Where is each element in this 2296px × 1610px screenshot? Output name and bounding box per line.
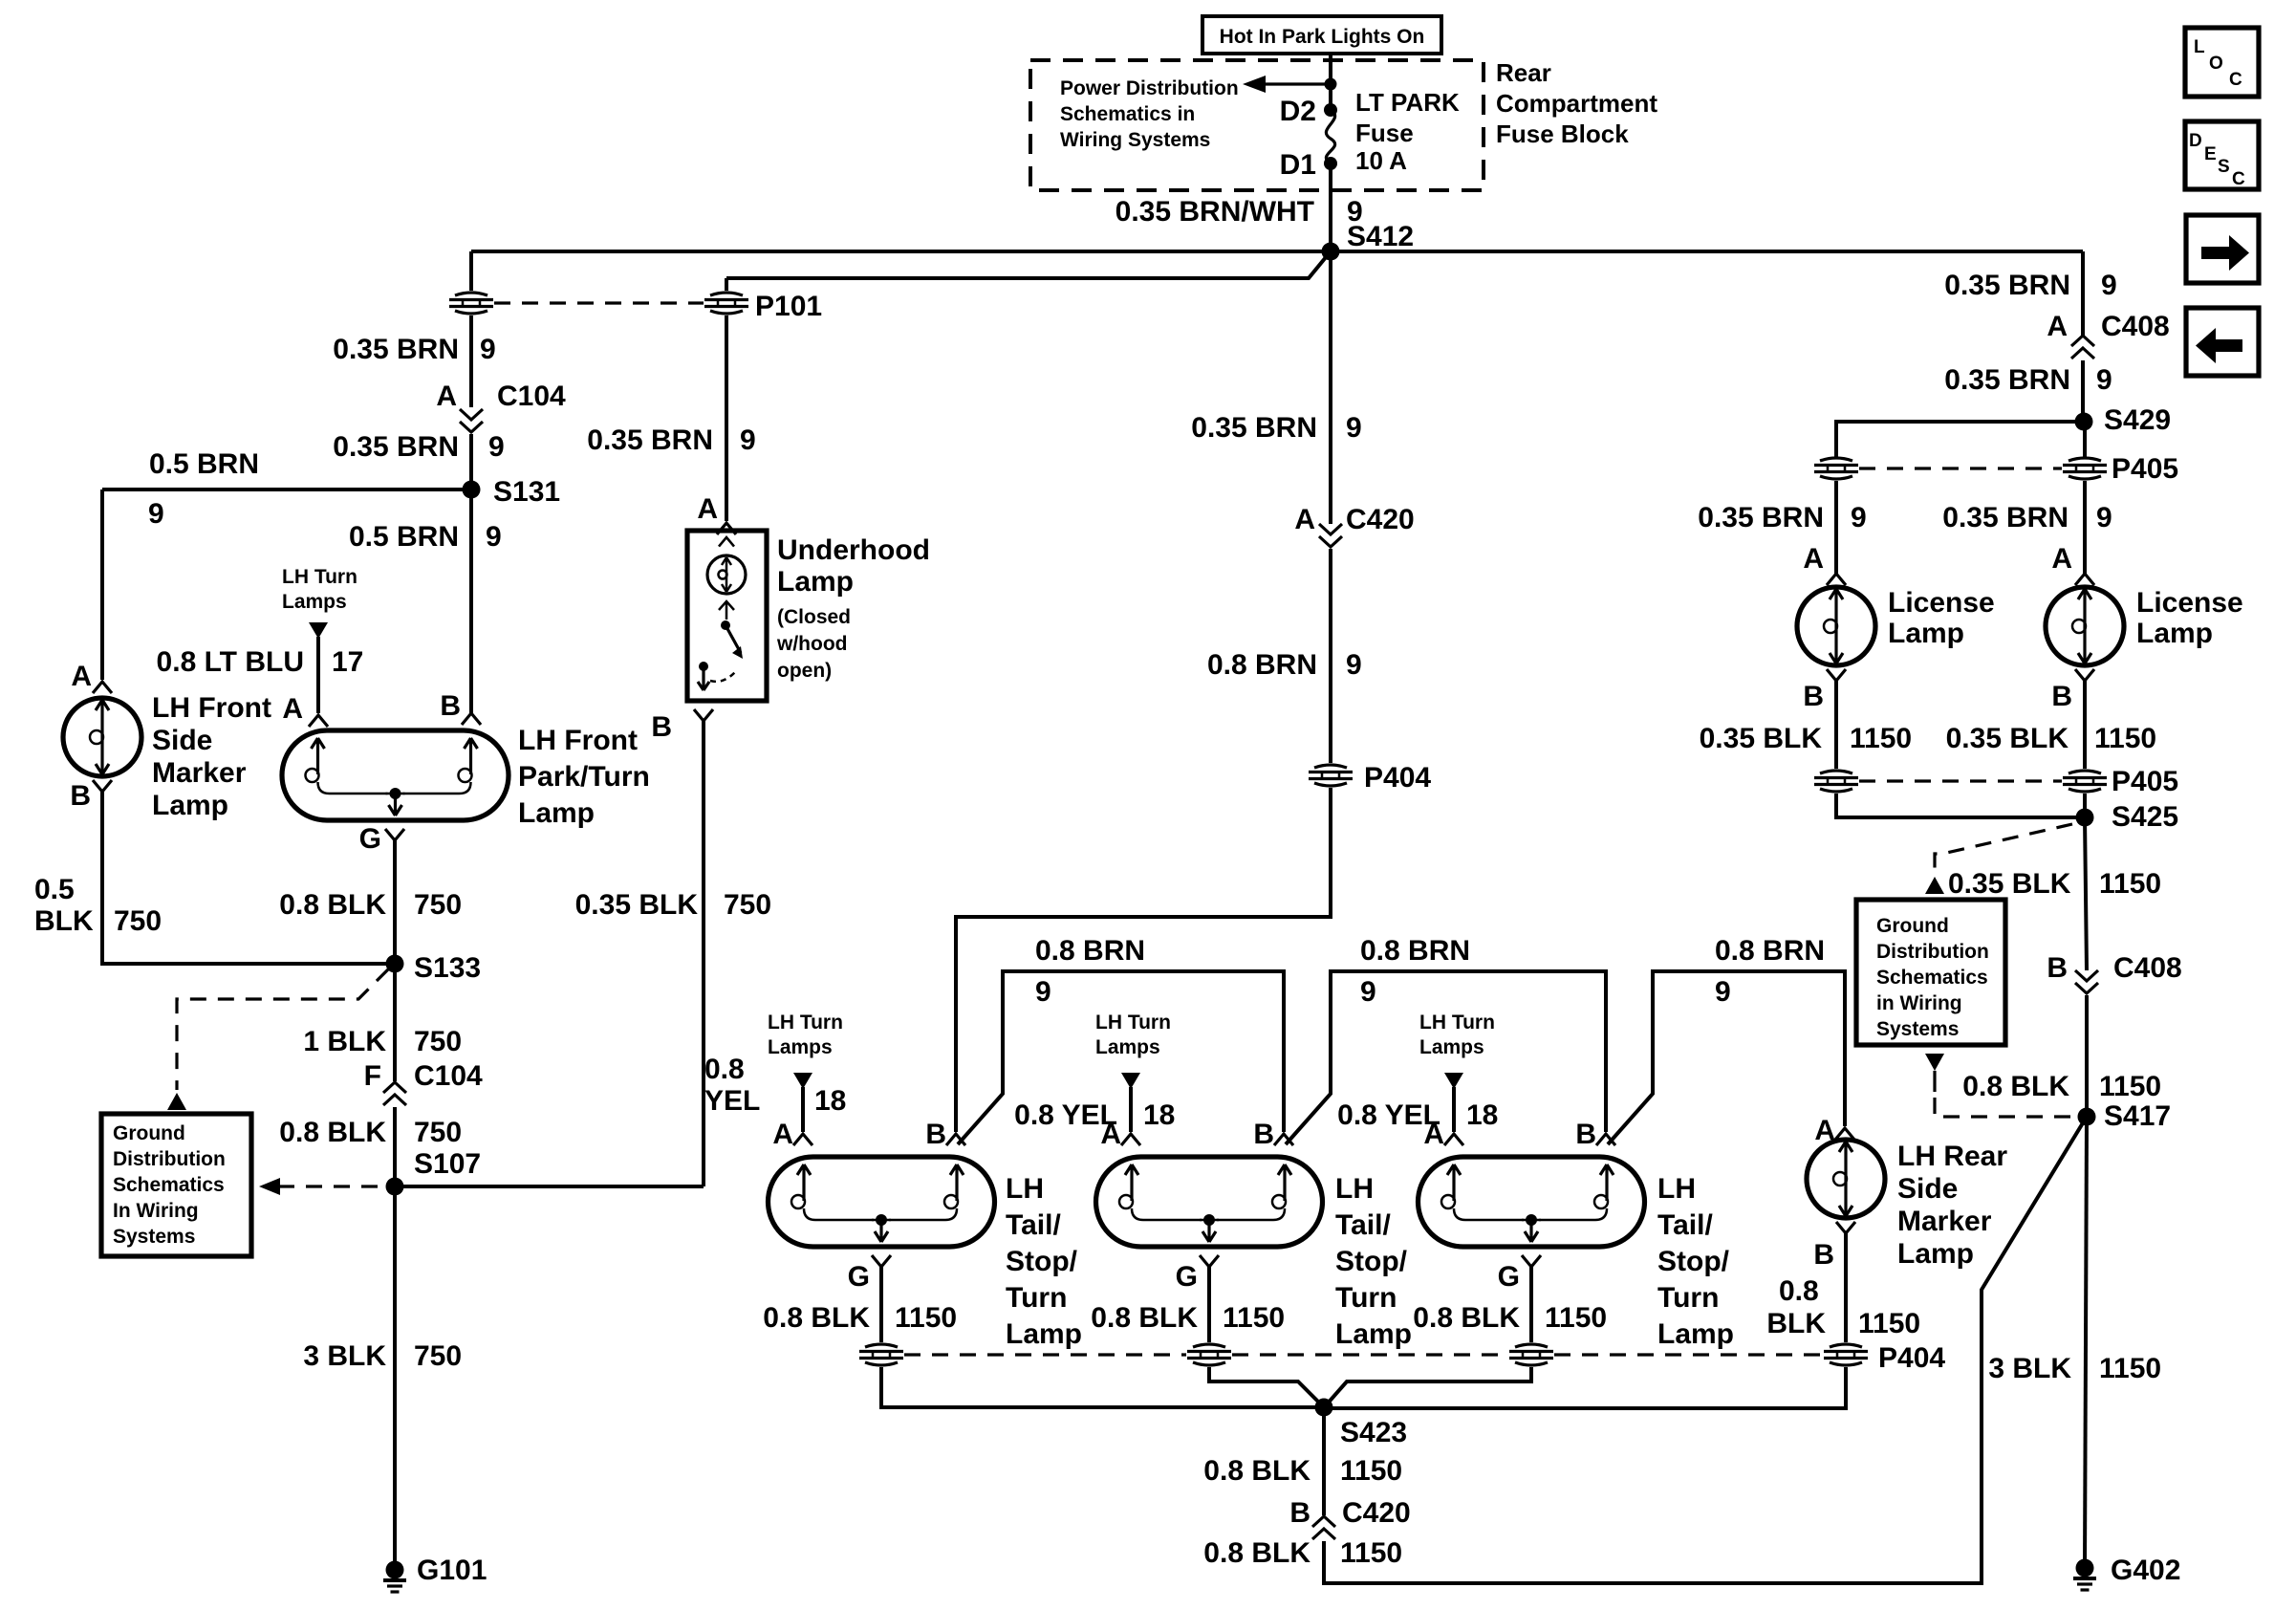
svg-text:9: 9 <box>480 334 496 365</box>
svg-text:LH Turn: LH Turn <box>1419 1012 1495 1033</box>
terminal A license left <box>1803 543 1846 585</box>
svg-text:YEL: YEL <box>704 1085 760 1117</box>
svg-text:F: F <box>364 1060 381 1092</box>
wire rear marker B to S423 <box>1324 1367 1846 1408</box>
svg-text:S107: S107 <box>414 1148 481 1180</box>
svg-text:LH: LH <box>1006 1173 1044 1205</box>
svg-text:9: 9 <box>1035 976 1051 1008</box>
terminal B <box>1813 1222 1855 1271</box>
label LH Tail/Stop/Turn Lamp <box>1006 1173 1082 1350</box>
wire label 0.35 BRN 9 <box>1191 412 1361 444</box>
svg-text:Lamp: Lamp <box>1888 618 1964 649</box>
wire label 0.8 BRN 9 <box>1207 649 1362 681</box>
stem below arrow <box>1933 1071 1936 1092</box>
terminal A <box>71 661 112 693</box>
wire license B right to P405 <box>2083 681 2087 769</box>
wire from title box to D2 <box>1329 54 1332 110</box>
wire license B to P405 (left) <box>1834 681 1838 769</box>
terminal G <box>848 1255 891 1293</box>
arrow to ground distribution box <box>167 1093 186 1110</box>
wire S131 to side marker branch <box>102 488 471 491</box>
svg-text:B: B <box>1289 1497 1310 1529</box>
wire label 0.35 BLK 1150 <box>1946 723 2156 754</box>
lamp LH Tail/Stop/Turn 2 <box>1096 1157 1323 1247</box>
svg-text:LH Turn: LH Turn <box>768 1012 843 1033</box>
node S107 <box>386 1148 482 1196</box>
grommet (left of P101) <box>449 293 493 314</box>
svg-text:C104: C104 <box>414 1060 483 1092</box>
label Rear Compartment Fuse Block <box>1496 58 1657 148</box>
svg-text:P404: P404 <box>1878 1342 1945 1374</box>
svg-text:0.8 BRN: 0.8 BRN <box>1360 935 1470 967</box>
label License Lamp <box>1888 587 1995 649</box>
wire label 0.8 BLK 1150 <box>1766 1275 1920 1339</box>
note LH Turn Lamps <box>768 1012 843 1058</box>
svg-text:0.35 BRN/WHT: 0.35 BRN/WHT <box>1116 196 1314 228</box>
wire label 0.35 BRN 9 <box>587 424 755 456</box>
svg-text:9: 9 <box>740 424 756 456</box>
wire label 0.8 BLK 750 <box>279 889 462 921</box>
wire P404 to tail lamp 1 B <box>956 788 1331 1132</box>
wire S429 to P405 right <box>2083 422 2087 457</box>
dashed link P404 row <box>904 1353 1823 1356</box>
arrow to power distribution <box>1243 76 1337 93</box>
wire D1 to S412 <box>1329 163 1332 251</box>
svg-text:Turn: Turn <box>1335 1282 1397 1314</box>
svg-text:0.35 BRN: 0.35 BRN <box>1944 270 2070 301</box>
terminal G <box>1498 1255 1541 1293</box>
svg-text:1150: 1150 <box>1340 1455 1402 1487</box>
svg-text:Lamp: Lamp <box>2136 618 2213 649</box>
svg-text:Lamp: Lamp <box>1897 1238 1974 1270</box>
svg-text:S425: S425 <box>2112 801 2178 833</box>
svg-text:Distribution: Distribution <box>1876 941 1989 963</box>
svg-text:Systems: Systems <box>113 1226 195 1248</box>
wire label 0.35 BRN 9 <box>333 431 504 463</box>
svg-text:Lamp: Lamp <box>1335 1318 1412 1350</box>
svg-text:P404: P404 <box>1364 762 1431 794</box>
node S133 <box>386 952 482 984</box>
svg-text:0.35 BRN: 0.35 BRN <box>1191 412 1317 444</box>
svg-text:S429: S429 <box>2104 404 2171 436</box>
label License Lamp <box>2136 587 2243 649</box>
lamp LH Front Park/Turn <box>282 730 509 820</box>
svg-text:9: 9 <box>2101 270 2117 301</box>
node S429 <box>2075 404 2172 436</box>
svg-text:B: B <box>1803 681 1824 712</box>
svg-text:Park/Turn: Park/Turn <box>518 761 650 793</box>
note LH Turn Lamps <box>1095 1012 1171 1058</box>
underhood lamp internals: bulb <box>707 537 746 594</box>
Rear Compartment Fuse Block dashed box <box>1030 60 1484 190</box>
svg-text:Tail/: Tail/ <box>1335 1209 1391 1241</box>
svg-text:0.8 BLK: 0.8 BLK <box>1413 1302 1520 1334</box>
wire marker lamp B to S133 <box>102 792 395 964</box>
node S412 <box>1322 221 1415 261</box>
svg-text:0.35 BLK: 0.35 BLK <box>1700 723 1823 754</box>
svg-text:A: A <box>1423 1119 1444 1150</box>
svg-text:P101: P101 <box>755 291 822 322</box>
svg-text:Underhood: Underhood <box>777 534 930 566</box>
connector P405 top left <box>1814 458 1858 479</box>
connector C104 pin A <box>436 381 566 432</box>
label LH Tail/Stop/Turn Lamp <box>1657 1173 1734 1350</box>
svg-text:9: 9 <box>1346 412 1362 444</box>
wire rear marker B to P404 <box>1844 1233 1848 1342</box>
svg-text:C408: C408 <box>2101 311 2170 342</box>
box Ground Distribution Schematics In Wiring Systems <box>101 1114 251 1256</box>
svg-text:G101: G101 <box>417 1555 487 1586</box>
svg-text:Distribution: Distribution <box>113 1148 226 1170</box>
wire S425 to C408 B <box>2085 817 2087 970</box>
connector C420 pin A <box>1294 504 1414 547</box>
wire G3 to S423 <box>1326 1367 1531 1405</box>
arrow to ground distribution (up) <box>1925 877 1944 894</box>
svg-text:B: B <box>1813 1239 1834 1271</box>
label LH Front Side Marker Lamp <box>152 692 271 821</box>
svg-text:1150: 1150 <box>1545 1302 1607 1334</box>
arrow from LH Turn Lamps <box>1444 1073 1463 1089</box>
svg-text:B: B <box>1575 1119 1596 1150</box>
icon LOC <box>2185 28 2259 97</box>
connector P404 (G1) <box>859 1344 903 1365</box>
svg-text:9: 9 <box>1360 976 1376 1008</box>
connector P405 top right <box>2063 453 2178 485</box>
svg-text:C: C <box>2229 70 2242 90</box>
svg-text:G402: G402 <box>2111 1555 2180 1586</box>
svg-text:1150: 1150 <box>2099 1353 2161 1384</box>
svg-text:750: 750 <box>724 889 771 921</box>
svg-text:Stop/: Stop/ <box>1006 1246 1078 1277</box>
svg-text:1 BLK: 1 BLK <box>303 1026 386 1057</box>
wire label 0.8 BLK 1150 <box>1091 1302 1285 1334</box>
svg-text:1150: 1150 <box>1850 723 1912 754</box>
svg-text:10 A: 10 A <box>1355 146 1407 175</box>
wire S107 to underhood lamp B <box>395 1185 704 1188</box>
note LH Turn Lamps <box>282 566 357 613</box>
wire label 0.8 BLK 1150 <box>1962 1071 2161 1102</box>
wire label 0.8 BLK 1150 <box>1203 1455 1402 1487</box>
svg-text:0.35 BLK: 0.35 BLK <box>575 889 699 921</box>
lamp LH Rear Side Marker <box>1807 1140 1885 1218</box>
wire turn feed to lamp A <box>316 637 320 713</box>
terminal A <box>772 1119 812 1150</box>
svg-text:Lamps: Lamps <box>1095 1036 1160 1058</box>
terminal B underhood lamp <box>651 709 713 743</box>
svg-text:G: G <box>848 1261 870 1293</box>
wire label 0.35 BRN 9 <box>1942 502 2112 533</box>
svg-text:In Wiring: In Wiring <box>113 1200 199 1222</box>
wire label 0.35 BRN 9 <box>333 334 495 365</box>
wire label 0.8 BRN 9 <box>1715 935 1825 1008</box>
svg-text:Hot In Park Lights On: Hot In Park Lights On <box>1220 26 1425 48</box>
wire C408 B to S417 <box>2085 995 2089 1117</box>
svg-text:750: 750 <box>114 905 162 937</box>
wire G2 to S423 <box>1209 1367 1322 1405</box>
dashed link to P101 <box>494 301 704 304</box>
fuse LT PARK 10A <box>1326 88 1460 175</box>
wire P101 to underhood lamp A <box>725 315 728 521</box>
svg-text:750: 750 <box>414 1340 462 1372</box>
svg-text:3 BLK: 3 BLK <box>303 1340 386 1372</box>
wire label 0.8 YEL 18 <box>1337 1099 1498 1131</box>
svg-text:0.8 BRN: 0.8 BRN <box>1035 935 1145 967</box>
svg-text:C420: C420 <box>1346 504 1415 535</box>
svg-text:LT PARK: LT PARK <box>1355 88 1460 117</box>
svg-text:A: A <box>71 661 92 692</box>
svg-text:A: A <box>1100 1119 1121 1150</box>
svg-text:BLK: BLK <box>1766 1308 1826 1339</box>
lamp License (left) <box>1797 587 1875 665</box>
svg-text:LH: LH <box>1657 1173 1696 1205</box>
terminal B <box>1253 1119 1293 1150</box>
svg-text:0.8 BLK: 0.8 BLK <box>1091 1302 1198 1334</box>
svg-text:Lamps: Lamps <box>1419 1036 1484 1058</box>
wire P405 to license lamp A (left) <box>1834 481 1838 574</box>
wire B riser to next rail <box>958 971 1284 1144</box>
ground G402 <box>2073 1555 2180 1590</box>
wire G to S133 <box>393 840 397 964</box>
svg-text:1150: 1150 <box>895 1302 957 1334</box>
svg-text:Side: Side <box>152 725 212 756</box>
wire turn feed to lamp A <box>801 1087 805 1132</box>
wire P405 to S425 <box>1836 794 2085 817</box>
svg-text:Turn: Turn <box>1657 1282 1719 1314</box>
icon arrow right <box>2186 215 2259 283</box>
terminal A <box>1100 1119 1140 1150</box>
svg-text:in Wiring: in Wiring <box>1876 992 1962 1014</box>
svg-text:A: A <box>2051 543 2072 575</box>
terminal B <box>1575 1119 1615 1150</box>
svg-text:9: 9 <box>1851 502 1867 533</box>
pin D1 <box>1280 149 1337 181</box>
wire C420 B to S417 branch <box>1324 1117 2087 1583</box>
note Power Distribution Schematics in Wiring Systems <box>1060 77 1239 151</box>
dashed reference from S425 to right ground box <box>1935 824 2072 875</box>
svg-text:G: G <box>1498 1261 1520 1293</box>
svg-text:Schematics: Schematics <box>1876 967 1988 989</box>
terminal A <box>1814 1115 1854 1146</box>
terminal A <box>282 693 328 727</box>
svg-text:Compartment: Compartment <box>1496 89 1657 118</box>
branch wire to P101 rail <box>726 251 1331 278</box>
svg-text:G: G <box>359 823 381 855</box>
svg-text:18: 18 <box>814 1085 846 1117</box>
svg-text:LH Rear: LH Rear <box>1897 1141 2007 1172</box>
wire label 0.5 BLK 750 <box>34 874 162 937</box>
wire S412 to C420 A <box>1329 251 1332 524</box>
svg-text:Schematics in: Schematics in <box>1060 103 1195 125</box>
svg-text:17: 17 <box>332 646 363 678</box>
svg-text:S133: S133 <box>414 952 481 984</box>
lamp License (right) <box>2046 587 2124 665</box>
wire label 0.8 BRN 9 <box>1360 935 1470 1008</box>
svg-text:Side: Side <box>1897 1173 1958 1205</box>
svg-text:750: 750 <box>414 1117 462 1148</box>
svg-text:0.5: 0.5 <box>34 874 75 905</box>
wire label 0.8 BRN 9 <box>1035 935 1145 1008</box>
svg-text:9: 9 <box>1346 649 1362 681</box>
connector C408 pin B <box>2047 952 2181 993</box>
svg-text:0.35 BRN: 0.35 BRN <box>1944 364 2070 396</box>
svg-text:0.8 BLK: 0.8 BLK <box>1203 1537 1310 1569</box>
lamp LH Tail/Stop/Turn 1 <box>769 1157 995 1247</box>
svg-text:1150: 1150 <box>1858 1308 1920 1339</box>
svg-text:License: License <box>2136 587 2243 619</box>
svg-text:0.8 BLK: 0.8 BLK <box>279 1117 386 1148</box>
svg-text:0.8 BRN: 0.8 BRN <box>1715 935 1825 967</box>
svg-text:1150: 1150 <box>1223 1302 1285 1334</box>
wire label 0.35 BRN/WHT 9 <box>1116 196 1363 228</box>
wire label 0.5 BRN 9 <box>148 448 259 530</box>
svg-text:A: A <box>2047 311 2068 342</box>
terminal B of park/turn lamp <box>440 690 481 725</box>
svg-text:Wiring Systems: Wiring Systems <box>1060 129 1210 151</box>
svg-text:9: 9 <box>2096 364 2112 396</box>
svg-text:C420: C420 <box>1342 1497 1411 1529</box>
svg-text:S417: S417 <box>2104 1100 2171 1132</box>
pin D2 <box>1280 96 1337 127</box>
svg-text:0.8: 0.8 <box>1779 1275 1819 1307</box>
underhood lamp box <box>687 531 767 701</box>
label LH Tail/Stop/Turn Lamp <box>1335 1173 1412 1350</box>
wire B riser to rear marker rail <box>1608 971 1845 1144</box>
svg-text:Ground: Ground <box>1876 915 1949 937</box>
dashed reference from S133 to ground box <box>177 969 388 1090</box>
terminal A license right <box>2051 543 2094 585</box>
svg-text:C104: C104 <box>497 381 566 412</box>
svg-text:Tail/: Tail/ <box>1657 1209 1713 1241</box>
svg-text:0.8 LT BLU: 0.8 LT BLU <box>157 646 304 678</box>
dashed link P405 top <box>1859 467 2062 469</box>
svg-text:9: 9 <box>1715 976 1731 1008</box>
svg-text:0.8 BLK: 0.8 BLK <box>279 889 386 921</box>
svg-text:Lamp: Lamp <box>1657 1318 1734 1350</box>
wire label 0.35 BRN 9 <box>1944 270 2116 301</box>
svg-text:0.8: 0.8 <box>704 1054 745 1085</box>
svg-text:750: 750 <box>414 1026 462 1057</box>
wire underhood B to S107 run <box>702 721 705 1186</box>
wire G3 to P404 <box>1529 1267 1533 1342</box>
box Ground Distribution Schematics in Wiring Systems (right) <box>1856 900 2005 1045</box>
wire S107 to G101 <box>393 1186 397 1570</box>
underhood lamp internals: hood switch <box>698 601 743 690</box>
svg-text:S: S <box>2218 157 2230 177</box>
svg-text:O: O <box>2209 54 2223 74</box>
svg-text:0.8 BRN: 0.8 BRN <box>1207 649 1317 681</box>
label LH Front Park/Turn Lamp <box>518 725 650 829</box>
connector C104 pin F <box>364 1060 483 1105</box>
svg-text:1150: 1150 <box>2099 868 2161 900</box>
svg-text:LH Turn: LH Turn <box>1095 1012 1171 1033</box>
connector P405 bottom right <box>2063 766 2178 797</box>
svg-text:Lamp: Lamp <box>152 790 228 821</box>
connector P404 (rear marker) <box>1824 1342 1945 1374</box>
svg-text:A: A <box>436 381 457 412</box>
dashed reference from S107 to ground box <box>259 1178 389 1195</box>
svg-text:A: A <box>1803 543 1824 575</box>
svg-text:9: 9 <box>486 521 502 553</box>
terminal B <box>925 1119 965 1150</box>
arrow from ground box (down) <box>1925 1054 1944 1071</box>
node S423 <box>1315 1399 1408 1449</box>
wire G2 to P404 <box>1207 1267 1211 1342</box>
svg-text:0.35 BLK: 0.35 BLK <box>1948 868 2071 900</box>
connector P404 (G3) <box>1509 1344 1553 1365</box>
wire label 0.8 BLK 1150 <box>1413 1302 1607 1334</box>
svg-text:C: C <box>2232 169 2245 189</box>
terminal B license left <box>1803 669 1846 712</box>
svg-text:9: 9 <box>2096 502 2112 533</box>
svg-text:0.35 BRN: 0.35 BRN <box>1942 502 2069 533</box>
ground G101 <box>383 1555 487 1592</box>
svg-text:B: B <box>2051 681 2072 712</box>
wire P405 to S425 (right) <box>2083 794 2087 817</box>
svg-text:Systems: Systems <box>1876 1018 1959 1040</box>
svg-text:0.35 BRN: 0.35 BRN <box>1698 502 1824 533</box>
lamp LH Tail/Stop/Turn 3 <box>1419 1157 1645 1247</box>
svg-text:Lamp: Lamp <box>518 797 595 829</box>
svg-text:D1: D1 <box>1280 149 1316 181</box>
wire main bus drop to grommet <box>469 251 473 291</box>
wire label 0.5 BRN 9 <box>349 521 502 553</box>
wire down to marker lamp A <box>100 490 104 680</box>
svg-text:Tail/: Tail/ <box>1006 1209 1061 1241</box>
svg-text:w/hood: w/hood <box>776 633 847 655</box>
wire label 0.8 BLK 1150 <box>763 1302 957 1334</box>
svg-text:S412: S412 <box>1347 221 1414 252</box>
icon arrow left <box>2186 308 2259 376</box>
svg-text:E: E <box>2204 144 2217 164</box>
svg-text:0.5 BRN: 0.5 BRN <box>149 448 259 480</box>
svg-text:A: A <box>1294 504 1315 535</box>
svg-text:B: B <box>440 690 461 722</box>
connector P101 <box>704 291 822 322</box>
svg-text:0.8 BLK: 0.8 BLK <box>1203 1455 1310 1487</box>
wire label 3 BLK 1150 <box>1988 1353 2161 1384</box>
svg-text:open): open) <box>777 660 832 682</box>
svg-text:P405: P405 <box>2112 766 2178 797</box>
svg-text:1150: 1150 <box>1340 1537 1402 1569</box>
svg-text:9: 9 <box>148 498 164 530</box>
svg-text:Lamp: Lamp <box>777 566 854 598</box>
dashed link P405 bottom <box>1859 779 2062 782</box>
arrow from LH Turn Lamps <box>1121 1073 1140 1089</box>
wire S423 to C420 B <box>1322 1407 1326 1515</box>
wire C104 to S131 <box>469 434 473 490</box>
wire C420 to P404 <box>1329 549 1332 763</box>
connector C420 pin B <box>1289 1497 1410 1539</box>
wire G1 to P404 <box>879 1267 883 1342</box>
wire label 0.8 BLK 750 <box>279 1117 462 1148</box>
svg-text:G: G <box>1176 1261 1198 1293</box>
svg-text:LH Turn: LH Turn <box>282 566 357 588</box>
connector P404 (G2) <box>1187 1344 1231 1365</box>
wire label 0.8 BLK 1150 <box>1203 1537 1402 1569</box>
svg-text:18: 18 <box>1466 1099 1498 1131</box>
wire P405 right to license lamp A (right) <box>2083 481 2087 574</box>
arrow from LH Turn Lamps <box>793 1073 812 1089</box>
wire main bus drop to C408 A <box>2081 251 2085 336</box>
wire label 0.8 LT BLU 17 <box>157 646 364 678</box>
wire G1 to S423 <box>881 1367 1324 1407</box>
svg-text:B: B <box>651 711 672 743</box>
svg-text:0.8 BLK: 0.8 BLK <box>1962 1071 2069 1102</box>
svg-text:Ground: Ground <box>113 1122 185 1144</box>
wire label 0.8 YEL 18 <box>704 1054 846 1117</box>
wire label 0.35 BLK 1150 <box>1700 723 1912 754</box>
wire S429 to left license branch <box>1836 422 2084 457</box>
